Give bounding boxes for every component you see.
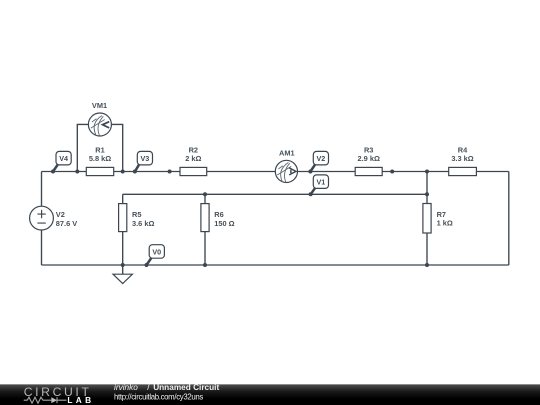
ground <box>113 265 132 284</box>
wire R6 branch <box>204 194 206 265</box>
svg-text:2 kΩ: 2 kΩ <box>185 154 201 163</box>
junction dots bottom row <box>121 263 429 267</box>
wire left branch with source <box>41 172 43 266</box>
node V2 flag <box>308 151 328 173</box>
resistor R1 <box>86 146 113 176</box>
footer title <box>114 383 219 401</box>
node V0 <box>145 245 165 267</box>
svg-text:3.3 kΩ: 3.3 kΩ <box>451 154 473 163</box>
wire VM1 loop <box>77 124 122 171</box>
svg-text:http://circuitlab.com/cy32uns: http://circuitlab.com/cy32uns <box>114 392 203 401</box>
junction dots lower row <box>203 192 429 196</box>
svg-text:VM1: VM1 <box>92 101 107 110</box>
svg-text:R5: R5 <box>132 210 141 219</box>
svg-text:150 Ω: 150 Ω <box>214 219 234 228</box>
wire right branch <box>508 172 510 266</box>
resistor R5 <box>119 204 155 232</box>
svg-text:R6: R6 <box>214 210 223 219</box>
wire R7 branch <box>426 172 428 266</box>
resistor R6 <box>201 204 235 232</box>
svg-text:3.6 kΩ: 3.6 kΩ <box>132 219 154 228</box>
wire lower row <box>123 193 427 195</box>
svg-text:V1: V1 <box>317 178 326 187</box>
svg-text:87.6 V: 87.6 V <box>56 219 77 228</box>
svg-text:V4: V4 <box>59 154 68 163</box>
svg-text:V3: V3 <box>141 154 150 163</box>
node V3 <box>133 151 153 173</box>
voltage source V2 <box>30 206 78 230</box>
svg-text:AM1: AM1 <box>279 148 295 157</box>
ammeter AM1 <box>275 148 297 182</box>
node V1 flag <box>309 175 329 196</box>
svg-text:V0: V0 <box>152 247 161 256</box>
wire bottom row <box>42 264 509 266</box>
svg-text:2.9 kΩ: 2.9 kΩ <box>358 154 380 163</box>
junction dots main row <box>75 170 429 174</box>
svg-text:irvinko: irvinko <box>114 383 138 392</box>
resistor R4 <box>449 146 477 176</box>
wire R5 branch <box>122 194 124 265</box>
svg-text:V2: V2 <box>56 210 65 219</box>
wire main top row <box>42 171 509 173</box>
CircuitLab logo <box>24 385 91 405</box>
svg-text:R7: R7 <box>437 210 446 219</box>
footer bar <box>0 384 540 405</box>
resistor R2 <box>180 146 207 176</box>
svg-text:LAB: LAB <box>67 395 91 405</box>
node V4 <box>51 151 71 173</box>
svg-text:Unnamed Circuit: Unnamed Circuit <box>153 383 219 392</box>
svg-text:1 kΩ: 1 kΩ <box>437 219 453 228</box>
resistor R7 <box>423 204 453 234</box>
svg-text:V2: V2 <box>317 154 326 163</box>
resistor R3 <box>355 146 382 176</box>
svg-text:5.8 kΩ: 5.8 kΩ <box>89 154 111 163</box>
voltmeter VM1 <box>88 101 111 136</box>
